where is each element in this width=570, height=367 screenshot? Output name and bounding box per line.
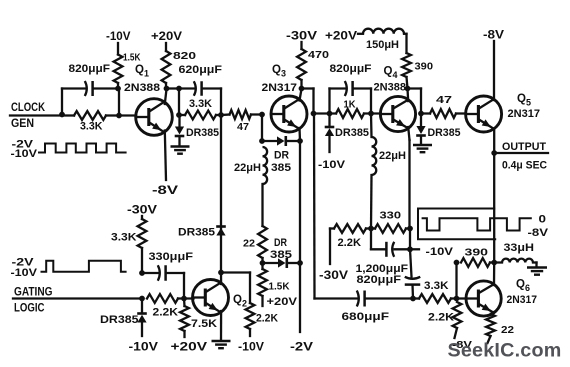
wire gating diode down (141, 299, 143, 313)
wire -8V down (493, 41, 495, 100)
resistor 3.3K coupling (185, 111, 216, 120)
wire 390 to node (407, 77, 408, 89)
resistor R 330 (375, 224, 406, 233)
svg-text:2N388: 2N388 (374, 82, 407, 94)
svg-text:+20V: +20V (325, 31, 357, 43)
svg-text:3.3K: 3.3K (424, 280, 449, 292)
wire 330 cap right drop (183, 273, 185, 299)
svg-text:330μμF: 330μμF (149, 251, 194, 263)
node clock-line left (59, 112, 65, 118)
svg-text:-8V: -8V (483, 30, 504, 42)
resistor R 47 (230, 110, 252, 119)
wire cap left drop (61, 89, 63, 115)
wire node to 3.3K (62, 114, 74, 116)
svg-text:390: 390 (415, 61, 434, 73)
svg-text:LOGIC: LOGIC (14, 301, 45, 315)
capacitor C 820uuF no3 (405, 283, 421, 286)
wire Q2 collector up (220, 273, 222, 285)
wire diode to ground (178, 138, 180, 146)
wire 2.2K bias left (330, 227, 334, 229)
wire diode to -10V (328, 136, 330, 152)
wire emitter column down (299, 141, 301, 332)
svg-text:-30V: -30V (319, 270, 348, 282)
svg-text:22: 22 (501, 324, 514, 336)
resistor R 470 (297, 49, 306, 80)
diode DR385 at Q1 (175, 127, 184, 135)
svg-text:3.3K: 3.3K (80, 121, 103, 133)
node 330 left (368, 226, 374, 232)
svg-text:2N317: 2N317 (507, 294, 538, 306)
ground Q2 emitter (212, 340, 231, 342)
svg-text:0: 0 (539, 214, 547, 226)
svg-text:DR385: DR385 (186, 127, 219, 139)
wire 620 cap right drop (220, 89, 222, 116)
wire 820 loop top (330, 87, 346, 89)
wire 7.5K leads (183, 299, 186, 307)
svg-text:-8V: -8V (152, 185, 178, 197)
wire 47 leads (221, 113, 230, 116)
resistor 2.2K Q2 (246, 303, 255, 329)
diode DR385 Q4 (416, 126, 425, 134)
svg-text:7.5K: 7.5K (191, 318, 217, 330)
ground below Q1 diode (171, 145, 190, 147)
wire 620 cap run (179, 87, 194, 89)
wire cap1200 left drop (370, 229, 372, 250)
wire Q2 col node right (221, 271, 250, 273)
node Q3 collector (299, 86, 305, 92)
svg-text:820μμF: 820μμF (330, 63, 372, 75)
wire Q1 emitter down (165, 131, 166, 181)
node Q6 collector top (491, 260, 497, 266)
inductor 22uH no2 (372, 137, 377, 175)
transistor Q5 2N317 (466, 96, 502, 132)
svg-text:DR385: DR385 (335, 127, 369, 139)
svg-text:385: 385 (270, 249, 292, 261)
node Q2 collector junction (218, 270, 224, 276)
node 3.3K-2 left (176, 112, 182, 118)
diode DR385 crosscouple (216, 225, 226, 228)
diode DR385 row2 (278, 258, 286, 267)
wire diode row2 (263, 262, 279, 264)
wire 470 to node (300, 80, 302, 89)
transistor Q2 2N388 (193, 280, 229, 316)
wire 330 leads (371, 227, 375, 229)
svg-text:-10V: -10V (238, 342, 264, 354)
resistor R 1K (336, 109, 364, 118)
waveform output (423, 218, 531, 230)
svg-text:GEN: GEN (11, 116, 34, 130)
svg-text:-10V: -10V (11, 267, 38, 279)
node Q4 collector (405, 86, 411, 92)
waveform gating input (42, 261, 126, 272)
svg-text:-30V: -30V (127, 205, 157, 217)
wire output line (494, 152, 548, 154)
wire riser 1.5K node (118, 89, 120, 116)
node diode row2 left (260, 260, 266, 266)
svg-text:-10V: -10V (318, 159, 346, 171)
capacitor C 1200uuF (385, 242, 388, 257)
wire -10V to R 1.5K (117, 43, 119, 55)
svg-text:680μμF: 680μμF (342, 311, 390, 323)
resistor 2.2K gating (147, 294, 178, 303)
node Q6 base (454, 296, 460, 302)
node diode row2 right (297, 260, 303, 266)
wire 1.5K no2 leads (261, 263, 263, 269)
ground below Q4 diode (413, 144, 432, 146)
svg-text:385: 385 (271, 162, 291, 174)
node cap/1.5K junction (115, 86, 121, 92)
wire Q5 emitter down (493, 129, 495, 154)
wire stub to Q1 diode (178, 115, 180, 127)
wire stub to Q3node diode (328, 114, 330, 128)
wire Q3 collector up (300, 89, 302, 101)
wire collector node right (167, 87, 180, 89)
svg-text:470: 470 (308, 49, 329, 61)
wire drop to 47 line (420, 89, 422, 114)
svg-text:22: 22 (243, 238, 255, 250)
svg-text:47: 47 (436, 94, 452, 106)
wire 390-2 right (490, 261, 494, 263)
node OUTPUT (491, 150, 497, 156)
wire 22res to node (261, 258, 263, 263)
svg-text:2N388: 2N388 (124, 82, 160, 94)
svg-text:3.3K: 3.3K (111, 232, 137, 244)
svg-text:GATING: GATING (14, 285, 53, 299)
waveform clock input (39, 144, 126, 153)
svg-text:SeekIC.com: SeekIC.com (448, 340, 562, 362)
inductor 33uH (502, 259, 533, 263)
wire drop to 2.2K (249, 273, 251, 304)
wire Q6 emitter (491, 312, 494, 314)
svg-text:-2V: -2V (290, 342, 313, 354)
diode DR385 Q3node (325, 126, 335, 129)
wire -30V down (300, 42, 302, 49)
wire 2.2K Q6 tail (455, 328, 458, 338)
svg-text:22μH: 22μH (234, 162, 261, 174)
wire 2.2K to node (366, 227, 371, 229)
svg-text:DR385: DR385 (100, 314, 139, 326)
wire Q2 col node up (220, 115, 222, 273)
node 3.3K right (116, 113, 122, 119)
node Q3 base (259, 112, 265, 118)
node 47 left (418, 111, 424, 117)
resistor R 22 Q6 (486, 314, 495, 336)
wire gating logic line (13, 297, 142, 299)
svg-text:-10V: -10V (129, 342, 159, 354)
wire diode row (262, 140, 277, 142)
svg-text:33μH: 33μH (504, 242, 535, 254)
resistor 3.3K clock (74, 111, 106, 120)
svg-text:-10V: -10V (106, 31, 131, 43)
node 1K left (327, 111, 333, 117)
wire Q5 emitter to box (493, 153, 495, 263)
resistor 7.5K (180, 306, 189, 331)
wire 3.3K leads (179, 114, 185, 116)
wire 1K-line (314, 112, 337, 114)
capacitor C 820uuF no2 (351, 81, 354, 96)
inductor 22uH no1 (263, 147, 268, 184)
svg-text:DR385: DR385 (428, 127, 461, 139)
wire 3.3K out leads (413, 297, 419, 299)
svg-text:3.3K: 3.3K (189, 98, 212, 110)
resistor R 47 no2 (430, 109, 456, 118)
wire Q3 col node right (302, 87, 314, 89)
wire 22 Q6 tail (488, 336, 491, 343)
capacitor C 820uuF (91, 81, 94, 96)
svg-text:620μμF: 620μμF (179, 64, 223, 76)
wire waveform box (418, 209, 495, 240)
svg-text:47: 47 (237, 121, 249, 133)
resistor 3.3K gating (138, 219, 147, 248)
svg-text:1.5K: 1.5K (269, 281, 290, 293)
wire 2.2K to -10V (249, 329, 251, 336)
node Q4 base (368, 111, 374, 117)
wire drop to 3.3K-2 (178, 89, 180, 116)
svg-text:+20V: +20V (151, 31, 182, 43)
wire base to Q6 (457, 297, 467, 299)
wire 820 to node (165, 83, 167, 89)
svg-text:2.2K: 2.2K (256, 313, 278, 325)
resistor 2.2K Q6 (453, 302, 462, 328)
svg-text:2N317: 2N317 (262, 82, 298, 94)
svg-text:150μH: 150μH (366, 39, 399, 51)
wire cap820-3 to 680line (411, 285, 414, 299)
wire drop to 1K line (312, 89, 314, 114)
node 680 line junction (410, 296, 416, 302)
wire 330 cap run (142, 272, 158, 274)
wire 22uH2 leads (370, 114, 373, 138)
wire Q1 collector up (165, 89, 167, 104)
wire 680 line (315, 297, 358, 299)
wire -30V col bottom (329, 229, 331, 265)
wire stub to Q4 diode (420, 114, 422, 127)
resistor 2.2K bias (334, 224, 366, 233)
resistor R 820 (162, 51, 171, 83)
capacitor C 620uuF (200, 81, 203, 96)
svg-text:2.2K: 2.2K (153, 307, 179, 319)
transistor Q6 2N317 (466, 281, 501, 316)
node Q1 collector (164, 86, 170, 92)
node Q2 base (181, 296, 187, 302)
svg-text:-10V: -10V (11, 148, 38, 160)
wire 150uH corner (404, 33, 407, 35)
svg-text:DR: DR (274, 237, 287, 249)
svg-text:2.2K: 2.2K (338, 237, 362, 249)
transistor Q4 2N388 (380, 96, 415, 131)
node 3.3K/47 junction (218, 112, 224, 118)
svg-text:-30V: -30V (286, 31, 317, 43)
svg-text:330: 330 (380, 210, 402, 222)
wire Q4 emitter down (408, 127, 409, 140)
node 330 right (407, 226, 413, 232)
svg-text:DR385: DR385 (178, 227, 215, 239)
svg-text:CLOCK: CLOCK (11, 100, 45, 114)
svg-text:-8V: -8V (528, 227, 549, 239)
wire Q2 emitter down (220, 311, 222, 341)
svg-text:820μμF: 820μμF (357, 274, 402, 286)
wire 22uH to 22res (261, 184, 263, 226)
wire 3.3K to cap node (141, 248, 143, 273)
inductor 150uH (363, 29, 404, 34)
resistor R 390 no2 (461, 258, 490, 267)
node 620 cap corner (176, 86, 182, 92)
wire 33uH leads (494, 261, 502, 263)
svg-text:-10V: -10V (426, 246, 454, 258)
svg-text:390: 390 (465, 247, 489, 259)
wire long left column (313, 114, 316, 299)
resistor R 22 no1 (258, 226, 267, 258)
wire -30V down (141, 216, 143, 219)
wire clock gen line (10, 114, 62, 116)
svg-text:DR: DR (274, 150, 289, 162)
wire 47 no2 leads (421, 112, 430, 114)
wire 820 loop sides (328, 89, 330, 114)
wire +20V tick (358, 33, 363, 35)
wire -10V stub (410, 248, 419, 250)
transistor Q3 2N317 (271, 96, 307, 132)
svg-text:+20V: +20V (171, 342, 208, 354)
wire Q4 collector up (406, 89, 409, 101)
svg-text:2.2K: 2.2K (428, 312, 454, 324)
wire 390-2 riser (455, 263, 457, 299)
svg-text:+20V: +20V (267, 296, 298, 308)
svg-text:22μH: 22μH (379, 150, 406, 162)
wire Q3 emitter down (298, 128, 301, 141)
capacitor C 680uuF (363, 291, 366, 307)
svg-text:820μμF: 820μμF (69, 63, 111, 75)
svg-text:0.4μ SEC: 0.4μ SEC (502, 160, 547, 172)
wire base col to diode row (261, 115, 263, 142)
wire +20V down (165, 43, 167, 51)
diode DR385 row1 (277, 136, 285, 145)
wire Q4 diode to gnd (420, 138, 422, 145)
wire Q4 col node right (408, 87, 422, 89)
wire Q6 collector up (493, 263, 496, 286)
node 390-2 left (454, 260, 460, 266)
node diode row left (259, 138, 265, 144)
resistor 3.3K out (419, 294, 451, 303)
wire cap1200 right (395, 248, 411, 250)
node 1K-line left (311, 111, 317, 117)
resistor R 1.5K no2 (258, 269, 267, 296)
transistor Q1 2N388 (136, 99, 173, 136)
wire to Q1 base (119, 114, 136, 116)
wire cap top run (62, 87, 85, 89)
svg-text:1K: 1K (344, 99, 356, 111)
wire col to cap820-3 (409, 229, 411, 250)
capacitor C 330uuF (164, 265, 167, 281)
diode DR385 gating (137, 312, 147, 315)
resistor R 390 top (402, 53, 411, 77)
svg-text:1.5K: 1.5K (123, 52, 141, 64)
node cap1200 right (407, 246, 413, 252)
ground 33uH (527, 266, 547, 268)
svg-text:820: 820 (173, 50, 196, 62)
node 330 cap left (139, 270, 145, 276)
resistor R 1.5K (114, 55, 123, 84)
svg-text:2N317: 2N317 (508, 108, 541, 120)
node gating junction (139, 296, 145, 302)
wire base node (178, 297, 194, 299)
wire 1.5K to node (117, 83, 119, 89)
node diode row right (297, 138, 303, 144)
svg-text:OUTPUT: OUTPUT (502, 141, 546, 153)
